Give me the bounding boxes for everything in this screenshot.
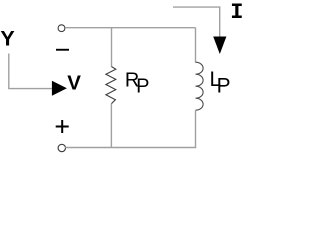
wire (inductor branch, top lead) [195, 28, 197, 63]
terminal circle (bottom) [58, 144, 65, 151]
svg-text:P: P [136, 76, 149, 98]
terminal circle (top) [58, 25, 65, 32]
wire (Y to V pointer, L-shaped) [9, 54, 52, 89]
plus sign (bottom polarity) [56, 120, 69, 133]
wire (resistor branch, bottom lead) [110, 104, 112, 148]
resistor RP zigzag [106, 67, 116, 104]
svg-text:I: I [230, 0, 243, 25]
svg-text:V: V [67, 72, 81, 95]
wire (resistor branch, top lead) [111, 28, 113, 67]
svg-text:P: P [217, 75, 231, 98]
wire (bottom horizontal) [65, 147, 196, 149]
arrowhead I (points down) [213, 37, 226, 55]
minus sign (top polarity) [56, 49, 69, 51]
wire (current I pointer, top right) [173, 7, 220, 37]
arrowhead V (points right) [52, 81, 67, 96]
wire (top horizontal) [65, 27, 195, 29]
svg-text:Y: Y [0, 27, 14, 51]
wire (inductor branch, bottom lead) [195, 110, 197, 147]
inductor LP coil (4 arcs) [196, 62, 204, 110]
